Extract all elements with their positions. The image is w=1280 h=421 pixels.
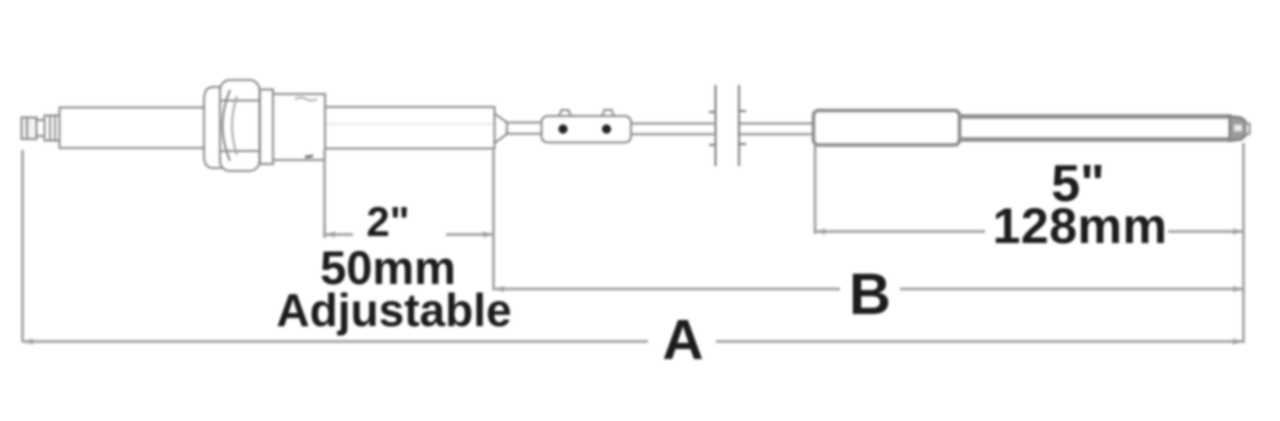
rod to clamp [505,123,543,134]
adjustment tube [325,107,495,149]
rod collar [45,116,60,141]
cable left of break [631,124,714,135]
nut back flange [204,87,222,168]
clamp bolt left [558,124,567,133]
dim line B [494,286,1244,292]
ram shaft [60,108,208,149]
svg-text:A: A [662,308,703,372]
dim line A [23,339,1244,345]
ext line left end [21,150,24,342]
cone [495,114,508,144]
ext line right end [1242,143,1245,343]
cable right of break [740,124,814,135]
rod end tip [22,118,45,140]
gland cylinder [273,94,325,160]
clamp block [542,110,632,143]
break mark left [709,85,716,166]
ext line tube left [323,150,326,238]
svg-text:128mm: 128mm [993,198,1168,254]
svg-text:2": 2" [366,198,409,245]
svg-text:B: B [849,262,891,327]
dim line 128mm [815,229,1244,235]
hex nut [220,80,260,171]
outer jacket [960,117,1232,140]
ferrule body [814,111,960,146]
washer [260,90,273,165]
svg-text:Adjustable: Adjustable [276,284,511,336]
dim line 2in [325,232,494,238]
ext line ferrule left [814,146,817,234]
ext line tube right [492,150,495,290]
break mark right [739,85,746,166]
clamp bolt right [602,124,611,133]
end fitting [1230,116,1250,141]
